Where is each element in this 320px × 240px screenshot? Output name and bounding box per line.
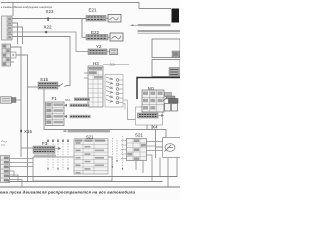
wire dashed group to fuse table	[48, 144, 68, 171]
svg-text:Y2: Y2	[96, 44, 102, 49]
bus line 3	[0, 186, 180, 188]
svg-text:X4: X4	[152, 125, 158, 130]
svg-text:E21: E21	[89, 8, 98, 13]
marks ground left	[1, 141, 7, 145]
svg-text:H3: H3	[93, 61, 99, 66]
wire X23 to glow plug E21	[12, 19, 86, 38]
wire lamps to X4	[128, 108, 136, 120]
wire H3 top right with arrows	[103, 63, 129, 66]
glow plug E22	[86, 33, 123, 41]
label к блоку монтажному	[63, 130, 68, 132]
indicator lamps H3 right	[105, 75, 123, 108]
label on box top	[34, 155, 56, 157]
wire switch to X15 / connector C	[11, 47, 28, 181]
fuse block F1	[46, 102, 65, 126]
connector X4	[138, 113, 164, 118]
wire connector C pins right	[10, 159, 34, 188]
ignition switch block S? left	[2, 44, 16, 66]
solenoid Y2	[88, 49, 118, 55]
wire F3 to vertical	[21, 147, 33, 149]
wire stubs S21 left	[121, 141, 127, 159]
wire top bus to battery	[1, 3, 171, 17]
wire pins A1 down to switch block	[12, 23, 23, 44]
wire fuse out arrow 1	[64, 104, 90, 107]
annotation line 2 underlined	[138, 30, 181, 34]
switch S21	[127, 139, 147, 161]
wire S21 and icon box to bus	[136, 155, 177, 187]
battery junction black box	[172, 9, 180, 23]
wire X22 to solenoid Y2	[12, 32, 88, 52]
wire X4 to S21 box	[156, 130, 163, 159]
svg-text:S21: S21	[135, 133, 144, 138]
switch S15	[38, 82, 67, 89]
relay box B2 right	[152, 60, 180, 77]
box around connector X4	[136, 107, 163, 125]
svg-text:S15: S15	[40, 77, 49, 82]
instrument cluster H3	[88, 66, 103, 107]
svg-text:F1: F1	[52, 96, 58, 101]
annotation line 1 with arrow	[131, 24, 171, 26]
svg-text:F3: F3	[42, 141, 48, 146]
wire lamps out right	[123, 100, 128, 110]
relay box B1 top-right	[152, 39, 180, 58]
starter M1 motor symbol	[163, 93, 178, 112]
wire S15 left to vertical	[28, 86, 39, 88]
wire fuse out arrow 2	[64, 115, 91, 118]
wire fuse bar 1	[74, 98, 90, 101]
connector symbol X22	[45, 31, 48, 34]
horn icon box bottom-right	[163, 138, 181, 158]
starter M1	[142, 90, 164, 112]
box monta block bottom	[33, 157, 112, 181]
svg-text:X15: X15	[24, 129, 33, 134]
svg-text:X22: X22	[44, 25, 53, 30]
labels above dashed wires	[47, 140, 69, 143]
svg-text:X23: X23	[46, 9, 55, 14]
connector symbol X23	[47, 17, 50, 20]
bus line 2	[8, 181, 163, 183]
wire dashed group right of table	[113, 136, 123, 170]
svg-text:60A: 60A	[65, 98, 70, 102]
connector X15	[20, 130, 22, 132]
thick cable starter loop	[137, 78, 180, 100]
fuse table bottom-middle	[74, 139, 108, 174]
wire S21 to icon box	[147, 138, 163, 151]
bus line 1	[8, 176, 178, 178]
relay K small left	[1, 97, 22, 104]
connector A1 top-left	[2, 16, 13, 40]
glow plug E21	[86, 15, 121, 23]
fuse F3	[33, 146, 61, 153]
connector C bottom-left	[1, 156, 10, 183]
svg-text:ема пуска двигателя распростра: ема пуска двигателя распространяется на …	[0, 190, 136, 195]
wire stubs H3 left	[84, 73, 88, 78]
wire X22 branch to switch S15	[12, 37, 70, 86]
wire S15 down to X4 bus	[44, 89, 166, 138]
